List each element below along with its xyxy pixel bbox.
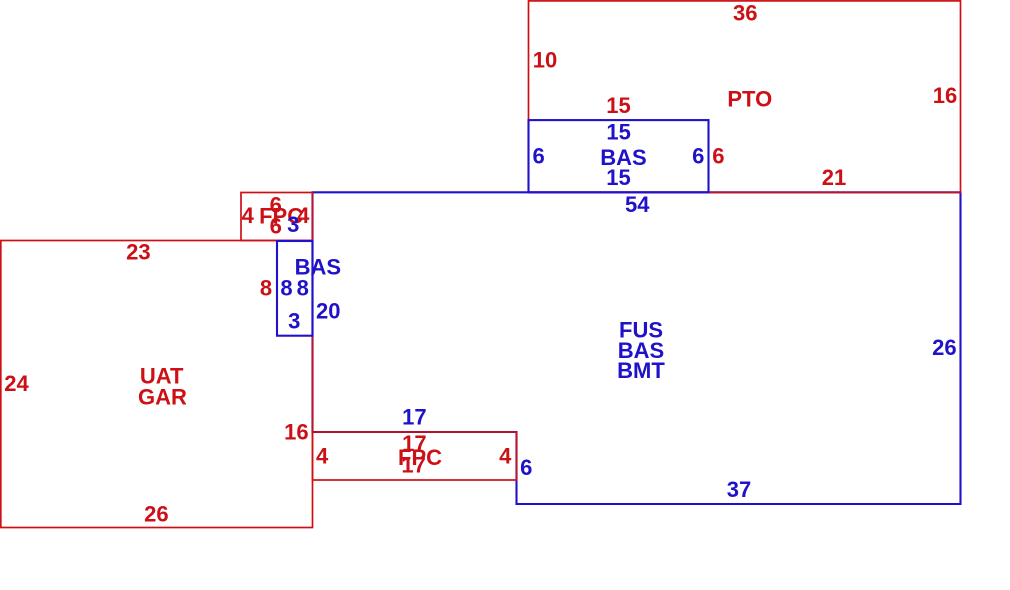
- svg-text:20: 20: [316, 299, 340, 324]
- svg-text:6: 6: [270, 213, 282, 238]
- FUS BAS BMT area polygon (blue): [313, 192, 961, 504]
- svg-text:4: 4: [316, 443, 329, 468]
- svg-text:PTO: PTO: [727, 86, 772, 111]
- svg-text:54: 54: [625, 192, 650, 217]
- svg-text:16: 16: [284, 419, 308, 444]
- svg-text:15: 15: [606, 165, 630, 190]
- svg-text:26: 26: [144, 501, 168, 526]
- BAS upper rectangle (blue): [529, 120, 709, 192]
- svg-text:10: 10: [533, 48, 557, 73]
- svg-text:23: 23: [126, 240, 150, 265]
- svg-text:8: 8: [260, 276, 272, 301]
- svg-text:6: 6: [692, 144, 704, 169]
- svg-text:6: 6: [532, 143, 544, 168]
- svg-text:21: 21: [822, 165, 846, 190]
- svg-text:15: 15: [606, 119, 630, 144]
- svg-text:26: 26: [932, 335, 956, 360]
- svg-text:17: 17: [402, 405, 426, 430]
- svg-text:36: 36: [733, 1, 757, 26]
- svg-text:6: 6: [712, 144, 724, 169]
- svg-text:3: 3: [287, 212, 299, 237]
- svg-text:8: 8: [297, 276, 309, 301]
- PTO rectangle (red): [529, 1, 961, 193]
- BAS small rectangle (blue): [277, 241, 313, 336]
- svg-text:GAR: GAR: [138, 384, 187, 409]
- svg-text:6: 6: [520, 455, 532, 480]
- svg-text:17: 17: [401, 453, 425, 478]
- svg-text:37: 37: [727, 477, 751, 502]
- svg-text:15: 15: [606, 93, 630, 118]
- FPC lower rectangle (red): [313, 432, 517, 480]
- FPC upper rectangle (red): [241, 193, 313, 241]
- UAT GAR rectangle (red): [1, 241, 313, 528]
- svg-text:8: 8: [280, 276, 292, 301]
- svg-text:16: 16: [933, 83, 957, 108]
- svg-text:4: 4: [242, 203, 255, 228]
- svg-text:3: 3: [288, 309, 300, 334]
- svg-text:4: 4: [499, 443, 512, 468]
- svg-text:24: 24: [4, 371, 29, 396]
- svg-text:BMT: BMT: [617, 358, 665, 383]
